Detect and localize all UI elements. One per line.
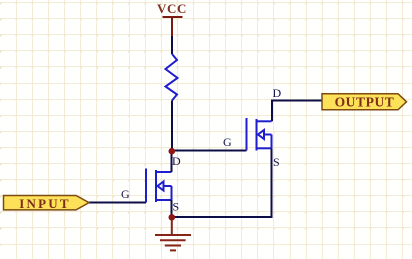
svg-text:S: S [173, 200, 180, 214]
svg-text:D: D [172, 154, 181, 168]
power symbol VCC bar [163, 16, 183, 36]
wire Q2 drain to OUTPUT [271, 100, 322, 102]
resistor [166, 54, 178, 101]
wire Q1 source lead [171, 200, 173, 217]
wire Q2 source down [271, 148, 273, 217]
port OUTPUT [322, 94, 407, 110]
wire VCC to resistor [171, 36, 173, 54]
svg-text:VCC: VCC [157, 1, 187, 16]
transistor Q2 [247, 118, 272, 151]
wire INPUT to Q1 gate [89, 202, 146, 204]
ground [155, 217, 191, 250]
junction node D [169, 148, 176, 155]
wire resistor to node D [171, 101, 173, 152]
wire Q2 drain up [271, 101, 273, 122]
junction node S [169, 214, 176, 221]
wire bottom rail [172, 216, 273, 218]
svg-text:D: D [273, 86, 282, 100]
svg-text:G: G [121, 187, 130, 201]
port INPUT [4, 196, 90, 212]
svg-text:G: G [223, 135, 232, 149]
svg-text:S: S [273, 155, 280, 169]
svg-text:OUTPUT: OUTPUT [335, 95, 395, 110]
wire node D to Q2 gate [171, 150, 247, 152]
transistor Q1 [146, 169, 172, 203]
wire Q1 drain lead [171, 151, 173, 172]
svg-text:INPUT: INPUT [19, 196, 70, 211]
